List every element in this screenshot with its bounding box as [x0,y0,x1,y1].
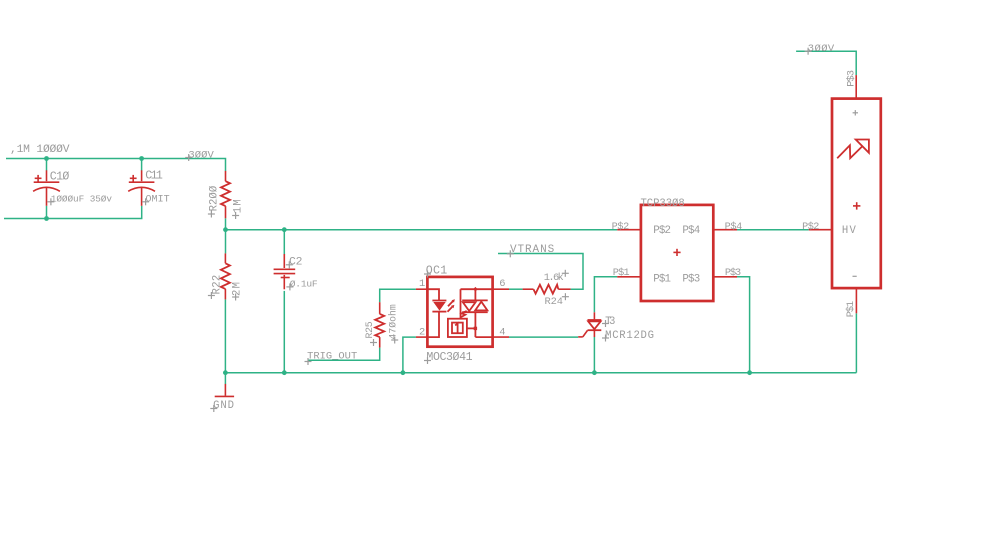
resistor R200 [221,171,230,218]
svg-text:P$1: P$1 [845,301,857,317]
svg-text:R25: R25 [364,321,375,338]
junction main node below R200 [223,227,228,232]
svg-text:TRIG_OUT: TRIG_OUT [307,351,357,363]
svg-text:MOC3Ø41: MOC3Ø41 [426,351,472,364]
svg-text:P$4: P$4 [725,221,743,233]
svg-text:2M: 2M [231,282,243,296]
OC1 light arrows [448,299,455,312]
origin cross R24 value [562,270,569,277]
svg-text:,1M 1ØØØV: ,1M 1ØØØV [10,144,70,156]
wire R22 top [225,230,227,254]
svg-text:T3: T3 [605,316,615,328]
junction P$3 ground [747,370,752,375]
TCP3308 pin P$1 stub [617,276,641,278]
wire T3 cathode to ground rail [593,337,595,373]
origin cross R22 value [232,294,239,301]
origin cross MOC3041 [424,357,431,364]
origin cross R22 name [208,292,215,299]
svg-text:3ØØV: 3ØØV [808,43,835,55]
origin cross 300V left [185,154,192,161]
svg-text:MCR12DG: MCR12DG [605,330,654,342]
wire HV P$1 to ground rail [855,313,857,372]
origin cross R24 name [562,293,569,300]
svg-text:OC1: OC1 [426,265,447,278]
wire bottom capacitor rail [4,206,142,219]
origin cross VTRANS [507,250,514,257]
svg-text:P$2: P$2 [653,225,671,237]
wire OC1 pin4 to T3 gate [509,336,578,338]
origin cross C2 value [286,283,293,290]
wire OC1 pin6 to R24 [509,288,523,290]
origin cross C2 name [286,261,293,268]
svg-text:4: 4 [499,327,505,339]
svg-text:R2ØØ: R2ØØ [209,185,221,211]
wire C10 top drop [46,159,48,171]
TCP3308 pin P$4 stub [713,229,737,231]
wire R200 bottom to main node [225,218,227,229]
TCP3308 pin P$2 stub [617,229,641,231]
wire TCP3308 P$3 to ground rail [737,277,750,373]
wire TCP3308 P$4 to HV P$2 [737,229,809,231]
ground symbol GND [215,384,234,397]
wire R22 bottom to ground rail [224,299,226,372]
origin cross T3 value [602,335,609,342]
resistor R24 [523,285,571,294]
OC1 internal LED [427,289,446,337]
svg-text:P$2: P$2 [802,221,819,233]
junction C2 bottom [282,370,287,375]
OC1 pin 6 stub [493,288,509,290]
junction T3 cathode ground [592,370,597,375]
OC1 pin 1 stub [416,288,428,290]
wire R24 to VTRANS corner [498,254,583,290]
svg-text:P$1: P$1 [613,267,630,279]
HV pin P$1 stub [855,288,857,313]
junction C11 top [139,156,144,161]
svg-text:1M: 1M [232,199,244,213]
HV origin cross (red) [853,202,860,209]
origin cross R25 name [370,339,377,346]
svg-text:P$3: P$3 [682,273,700,285]
svg-text:C2: C2 [289,257,303,269]
HV internal minus mark (gray) [853,275,857,277]
junction OC1 pin2 ground [401,370,406,375]
svg-text:3ØØV: 3ØØV [188,149,214,161]
origin cross R200 value [232,212,239,219]
svg-text:P$3: P$3 [845,70,857,87]
origin cross R200 name [208,211,215,218]
svg-text:GND: GND [213,400,234,412]
HV internal plus mark (gray) [853,110,858,115]
svg-text:1ØØØuF 35Øv: 1ØØØuF 35Øv [51,194,113,205]
origin cross OC1 name [424,271,431,278]
wire main horizontal net to TCP3308 P$2 [226,229,618,231]
junction C2 top [282,227,287,232]
HV internal arrow symbol [837,140,869,159]
origin cross GND [210,405,217,412]
wire C2 bottom drop [283,291,285,373]
wire C10 bottom drop [46,206,48,219]
wire R25 bottom to TRIG_OUT [308,348,380,361]
origin cross R25 value [391,337,398,344]
origin cross C11 value [142,198,149,205]
svg-text:VTRANS: VTRANS [510,244,555,256]
svg-text:2: 2 [419,327,425,339]
opto-coupler OC1 box [427,277,492,347]
resistor R22 [221,253,230,299]
junction C10 bottom [44,216,49,221]
capacitor C2 [274,254,296,289]
OC1 internal triac [461,287,493,337]
capacitor C10 [33,170,60,206]
origin cross TRIG_OUT [305,358,312,365]
wire C11 top drop [141,159,143,171]
wire top-left 300V rail [6,159,226,172]
wire to GND symbol [224,373,226,384]
OC1 pin 2 stub [416,336,428,338]
origin cross 300V right [805,48,812,55]
wire OC1 pin2 to ground rail [403,337,416,373]
capacitor C11 [128,170,155,206]
TCP3308 origin cross [673,249,680,256]
svg-text:OMIT: OMIT [146,195,170,206]
origin cross C10 value [47,198,54,205]
origin cross T3 name [602,320,609,327]
svg-text:C11: C11 [145,169,163,182]
wire T3 anode to TCP3308 P$1 [594,277,617,313]
svg-text:1.6k: 1.6k [544,272,564,284]
HV component box [832,99,881,289]
svg-text:P$3: P$3 [725,267,741,279]
svg-text:R24: R24 [545,296,564,308]
svg-text:HV: HV [842,225,857,237]
HV pin P$2 stub [809,229,832,231]
resistor R25 [375,302,384,347]
svg-text:P$4: P$4 [682,225,700,237]
svg-text:1: 1 [419,278,425,290]
wire C2 top drop [283,230,285,255]
OC1 zero-cross circuit [448,289,477,337]
thyristor T3 [578,312,601,337]
IC TCP3308 box [641,205,713,301]
svg-text:47Øohm: 47Øohm [387,304,398,339]
HV pin P$3 stub [855,75,857,99]
wire OC1 pin1 net [380,289,416,302]
svg-text:P$1: P$1 [653,273,671,285]
junction ground rail left [223,370,228,375]
svg-text:C1Ø: C1Ø [50,171,70,184]
wire ground rail [225,372,856,374]
svg-text:R22: R22 [212,275,224,295]
OC1 pin 4 stub [493,336,509,338]
TCP3308 pin P$3 stub [713,276,737,278]
svg-text:TCP33Ø8: TCP33Ø8 [641,198,685,210]
wire 300V to HV P$3 [796,51,856,75]
svg-text:P$2: P$2 [612,221,630,233]
junction C10 top [44,156,49,161]
svg-text:6: 6 [499,278,505,290]
svg-text:Ø.1uF: Ø.1uF [290,278,318,289]
